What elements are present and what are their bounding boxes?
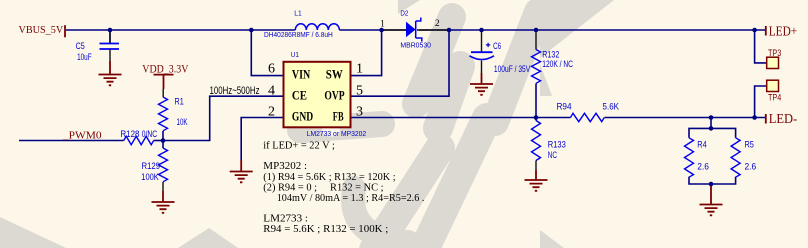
svg-text:if LED+ = 22 V ;: if LED+ = 22 V ;: [263, 141, 335, 152]
resistor R1: [159, 96, 188, 131]
svg-text:GND: GND: [292, 109, 313, 124]
svg-text:2: 2: [268, 105, 275, 120]
junction OVP riser on LED+ rail: [447, 28, 452, 33]
junction TP4 tap at LED- port: [752, 115, 757, 120]
wire SW pin 1: [351, 30, 382, 76]
svg-text:OVP: OVP: [324, 88, 344, 103]
ground (C5): [99, 61, 122, 85]
svg-text:DH40286R8MF / 6.8uH: DH40286R8MF / 6.8uH: [264, 30, 333, 39]
svg-text:(2) R94 = 0 ; R132 = NC ;: (2) R94 = 0 ; R132 = NC ;: [263, 183, 383, 194]
svg-text:LM2733 :: LM2733 :: [263, 214, 308, 225]
wire R94 to LED-: [605, 117, 766, 119]
svg-text:R129: R129: [142, 161, 161, 172]
ground (C6): [470, 73, 493, 95]
diode D2: [380, 9, 449, 50]
svg-text:VIN: VIN: [292, 66, 311, 81]
wire TP4: [755, 86, 767, 118]
wire GND pin 2: [241, 118, 283, 161]
resistor R4: [685, 138, 710, 177]
wire R132 bottom to FB row: [535, 84, 537, 118]
svg-text:0/NC: 0/NC: [142, 129, 157, 140]
test point TP3: [767, 48, 782, 69]
note text block: [263, 141, 424, 235]
svg-text:LED+: LED+: [769, 25, 798, 40]
junction FB / R132 / R133 / R94 node: [534, 115, 539, 120]
wire VIN pin 6: [251, 30, 283, 76]
wire FB row junction to R94: [536, 117, 571, 119]
svg-text:100Hz~500Hz: 100Hz~500Hz: [210, 85, 260, 97]
svg-text:100K: 100K: [141, 172, 159, 183]
port VBUS_5V: [19, 25, 66, 37]
svg-text:D2: D2: [400, 9, 408, 18]
svg-text:5.6K: 5.6K: [603, 102, 620, 113]
wire FB pin 3 to R132 junction: [351, 117, 537, 119]
junction C6 tap on LED+ rail: [479, 28, 484, 33]
svg-text:100uF / 35V: 100uF / 35V: [494, 64, 531, 75]
svg-text:4: 4: [268, 84, 275, 99]
svg-text:6: 6: [268, 61, 275, 76]
svg-text:C6: C6: [493, 41, 501, 52]
svg-text:TP4: TP4: [768, 92, 781, 103]
svg-text:2: 2: [435, 19, 440, 29]
ground (R129): [152, 191, 175, 213]
svg-text:U1: U1: [291, 50, 299, 59]
svg-text:C5: C5: [76, 41, 85, 52]
svg-text:MBR0530: MBR0530: [400, 41, 431, 50]
wire CE pin 4: [163, 96, 284, 140]
svg-text:VBUS_5V: VBUS_5V: [19, 25, 64, 36]
junction R4/R5 bottom bar: [709, 182, 714, 187]
junction SW / D2 anode node: [379, 28, 384, 33]
junction TP3 tap at LED+ port: [752, 28, 757, 33]
wire L1 to D2: [339, 29, 406, 31]
svg-text:R1: R1: [175, 96, 184, 107]
wire C5 tap: [109, 30, 111, 43]
junction R4/R5 top bar: [709, 126, 714, 131]
ground (R4R5): [700, 184, 723, 215]
svg-text:10K: 10K: [177, 117, 188, 128]
svg-text:3: 3: [356, 105, 363, 120]
svg-text:R133: R133: [548, 140, 566, 151]
junction R1/R128/R129 PWM node: [161, 138, 166, 143]
wire top rail VBUS to L1: [66, 29, 295, 31]
svg-text:R128: R128: [120, 129, 139, 140]
junction C5 tap on VBUS rail: [108, 28, 113, 33]
resistor R128: [120, 129, 157, 145]
svg-text:NC: NC: [548, 150, 557, 161]
svg-text:1: 1: [356, 61, 363, 76]
svg-text:R94 = 5.6K ; R132 = 100K ;: R94 = 5.6K ; R132 = 100K ;: [263, 224, 388, 235]
svg-text:MP3202 :: MP3202 :: [263, 161, 307, 172]
svg-text:LM2733 or MP3202: LM2733 or MP3202: [307, 129, 367, 138]
test point TP4: [767, 80, 782, 103]
ground (U1 GND pin): [230, 160, 253, 182]
wire OVP pin 5: [351, 30, 450, 96]
svg-text:LED-: LED-: [769, 112, 798, 127]
wire D2 to LED+: [419, 29, 765, 31]
svg-text:(1) R94 = 5.6K ; R132 = 120K ;: (1) R94 = 5.6K ; R132 = 120K ;: [263, 172, 395, 183]
wire R128 to junction: [154, 140, 163, 142]
svg-text:2.6: 2.6: [745, 162, 757, 173]
port LED+: [766, 25, 797, 40]
wire R133 top stub: [535, 118, 537, 121]
wire R129 top stub: [162, 141, 164, 149]
IC U1 (LM2733 or MP3202 boost converter): [268, 50, 366, 138]
wire R1 bottom stub: [162, 131, 164, 141]
capacitor C5: [76, 30, 119, 63]
svg-text:SW: SW: [326, 66, 343, 81]
svg-text:R94: R94: [557, 102, 572, 113]
junction R132 tap on LED+ rail: [534, 28, 539, 33]
wire PWM0 row: [19, 140, 124, 142]
svg-text:104mV / 80mA = 1.3 ; R4=R5=2.: 104mV / 80mA = 1.3 ; R4=R5=2.6 .: [277, 193, 425, 204]
resistor R94: [557, 102, 620, 122]
svg-text:R4: R4: [697, 139, 706, 150]
junction VIN drop on VBUS rail: [249, 28, 254, 33]
inductor L1: [264, 9, 339, 40]
resistor R129: [141, 148, 167, 191]
ground (R133): [525, 170, 548, 191]
svg-text:R5: R5: [745, 139, 754, 150]
svg-text:10uF: 10uF: [77, 52, 92, 63]
svg-text:L1: L1: [294, 9, 302, 18]
svg-text:CE: CE: [292, 88, 307, 103]
svg-text:TP3: TP3: [768, 48, 781, 59]
resistor R5: [731, 138, 756, 177]
resistor R133: [532, 121, 566, 171]
svg-text:_PWM0: _PWM0: [62, 131, 102, 142]
wire TP3: [755, 30, 767, 63]
svg-text:FB: FB: [333, 109, 344, 124]
junction R4R5 tap on LED- wire: [709, 115, 714, 120]
capacitor C6: [470, 30, 531, 75]
power port VDD_3.3V: [142, 64, 189, 98]
wire R4R5 box: [689, 128, 736, 184]
svg-text:2.6: 2.6: [697, 162, 709, 173]
resistor R132: [532, 30, 573, 83]
port LED-: [766, 112, 798, 127]
svg-text:5: 5: [356, 84, 363, 99]
watermark: [0, 0, 614, 248]
svg-text:120K / NC: 120K / NC: [542, 59, 573, 70]
wire R4R5 top stub: [710, 118, 712, 129]
